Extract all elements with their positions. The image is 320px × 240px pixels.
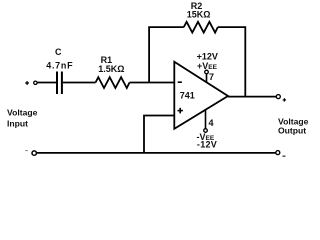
- svg-text:+12V: +12V: [197, 52, 218, 62]
- pin 4 lead: [205, 110, 207, 129]
- output plus label: [283, 99, 286, 101]
- svg-text:4.7nF: 4.7nF: [46, 61, 73, 71]
- svg-text:1.5KΩ: 1.5KΩ: [98, 64, 124, 74]
- svg-text:Voltage: Voltage: [7, 107, 38, 117]
- feedback wire up and across: [149, 27, 184, 82]
- input terminal: [34, 81, 37, 84]
- svg-text:4: 4: [208, 118, 213, 128]
- svg-text:741: 741: [180, 90, 195, 100]
- capacitor C plates: [56, 72, 58, 95]
- output terminal: [276, 95, 280, 99]
- wire R1 to op-amp inverting input: [130, 82, 175, 84]
- wire R2 to feedback down: [218, 27, 246, 97]
- bottom-left terminal: [32, 151, 36, 155]
- pin 4 terminal: [204, 129, 208, 133]
- op-amp U1 741: [174, 62, 228, 129]
- svg-text:7: 7: [209, 72, 214, 82]
- svg-text:15KΩ: 15KΩ: [187, 10, 211, 20]
- output wire: [228, 96, 276, 98]
- ground rail wire: [37, 152, 276, 154]
- bottom-left minus label: [25, 150, 28, 151]
- resistor R1: [96, 77, 130, 88]
- svg-text:Input: Input: [7, 118, 28, 128]
- op-amp minus input label: [178, 81, 182, 83]
- wire non-inverting input to ground rail: [144, 116, 174, 154]
- svg-text:-12V: -12V: [197, 140, 217, 150]
- input plus label: [25, 82, 29, 84]
- bottom-right terminal: [276, 151, 280, 155]
- wire input to capacitor: [37, 82, 56, 84]
- wire capacitor to R1: [63, 82, 96, 84]
- pin 7 lead: [206, 74, 208, 83]
- resistor R2: [184, 22, 218, 33]
- bottom-right minus label: [283, 155, 286, 157]
- svg-text:Output: Output: [278, 126, 306, 136]
- svg-text:C: C: [55, 47, 62, 57]
- op-amp plus input label: [178, 110, 183, 112]
- pin 7 terminal: [205, 70, 209, 74]
